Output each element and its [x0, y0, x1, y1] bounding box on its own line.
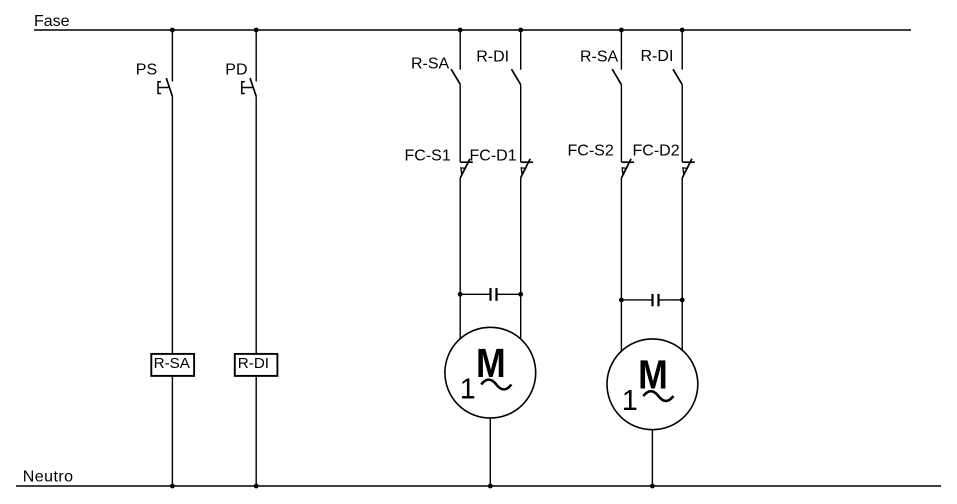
wire FC-D1 to motor M1 (right): [520, 178, 522, 339]
motor M1: [445, 327, 536, 418]
svg-text:PS: PS: [136, 62, 157, 79]
wire Fase to PD: [255, 30, 257, 82]
wire contact R-SA 1 to FC-S1: [459, 84, 461, 161]
wire PD to coil R-DI: [255, 96, 257, 354]
wire Neutro bus: [16, 485, 941, 487]
svg-text:Neutro: Neutro: [23, 468, 74, 485]
wire FC-S1 to motor M1 (left): [459, 178, 461, 339]
svg-text:Fase: Fase: [34, 13, 70, 30]
svg-text:FC-D2: FC-D2: [633, 143, 680, 160]
relay coil R-DI: [235, 354, 278, 376]
wire coil R-DI to Neutro: [255, 376, 257, 486]
wire Fase to contact R-DI 2: [681, 30, 683, 70]
junction node: Neutro / motor M1: [488, 484, 493, 489]
svg-text:R-SA: R-SA: [580, 49, 619, 66]
wire contact R-DI 2 to FC-D2: [681, 84, 683, 161]
svg-text:R-SA: R-SA: [154, 355, 191, 372]
junction node: Neutro / motor M2: [650, 484, 655, 489]
wire Fase bus: [34, 29, 911, 31]
wire FC-D2 to motor M2 (right): [681, 178, 683, 351]
wire Fase to contact R-DI 1: [520, 30, 522, 70]
svg-text:R-DI: R-DI: [641, 48, 674, 65]
junction node: Fase / branch R-DI contact 1: [518, 28, 523, 33]
wire contact R-SA 2 to FC-S2: [620, 84, 622, 161]
wire C1 left lead: [460, 293, 490, 295]
pushbutton PS (NO): [158, 78, 172, 96]
contact R-DI 1 (NO) blade: [512, 69, 521, 84]
junction node: capacitor C2 right: [680, 298, 685, 303]
wire C1 right lead: [497, 293, 521, 295]
limit switch FC-S1 (NC): [460, 159, 473, 178]
svg-text:R-DI: R-DI: [476, 49, 509, 66]
svg-text:FC-S1: FC-S1: [405, 148, 451, 165]
wire Fase to contact R-SA 2: [620, 30, 622, 70]
limit switch FC-D1 (NC): [521, 159, 534, 178]
wire motor M2 to Neutro: [651, 430, 653, 486]
wire FC-S2 to motor M2 (left): [620, 178, 622, 353]
svg-text:PD: PD: [225, 62, 247, 79]
svg-text:R-DI: R-DI: [238, 355, 269, 372]
junction node: capacitor C1 left: [458, 292, 463, 297]
junction node: Neutro / coil R-DI: [254, 484, 259, 489]
limit switch FC-S2 (NC): [621, 159, 634, 178]
wire C2 right lead: [659, 299, 683, 301]
junction node: Neutro / coil R-SA: [170, 484, 175, 489]
pushbutton PD (NO): [242, 78, 256, 96]
contact R-SA 2 (NO) blade: [612, 69, 621, 84]
wire Fase to PS: [171, 30, 173, 82]
motor M2: [607, 339, 698, 430]
wire Fase to contact R-SA 1: [459, 30, 461, 70]
junction node: Fase / branch PS: [170, 28, 175, 33]
junction node: Fase / branch R-SA contact 2: [619, 28, 624, 33]
svg-text:FC-D1: FC-D1: [470, 148, 517, 165]
junction node: Fase / branch PD: [254, 28, 259, 33]
relay coil R-SA: [151, 354, 194, 376]
capacitor C2: [653, 294, 659, 306]
svg-text:R-SA: R-SA: [411, 56, 450, 73]
wire PS to coil R-SA: [171, 96, 173, 354]
junction node: Fase / branch R-SA contact 1: [458, 28, 463, 33]
wire motor M1 to Neutro: [489, 418, 491, 486]
contact R-DI 2 (NO) blade: [673, 69, 682, 84]
wire coil R-SA to Neutro: [171, 376, 173, 486]
limit switch FC-D2 (NC): [682, 159, 695, 178]
junction node: capacitor C2 left: [619, 298, 624, 303]
wire contact R-DI 1 to FC-D1: [520, 84, 522, 161]
svg-text:FC-S2: FC-S2: [568, 143, 614, 160]
capacitor C1: [491, 288, 497, 301]
wire C2 left lead: [621, 299, 652, 301]
junction node: Fase / branch R-DI contact 2: [680, 28, 685, 33]
junction node: capacitor C1 right: [518, 292, 523, 297]
contact R-SA 1 (NO) blade: [451, 69, 460, 84]
